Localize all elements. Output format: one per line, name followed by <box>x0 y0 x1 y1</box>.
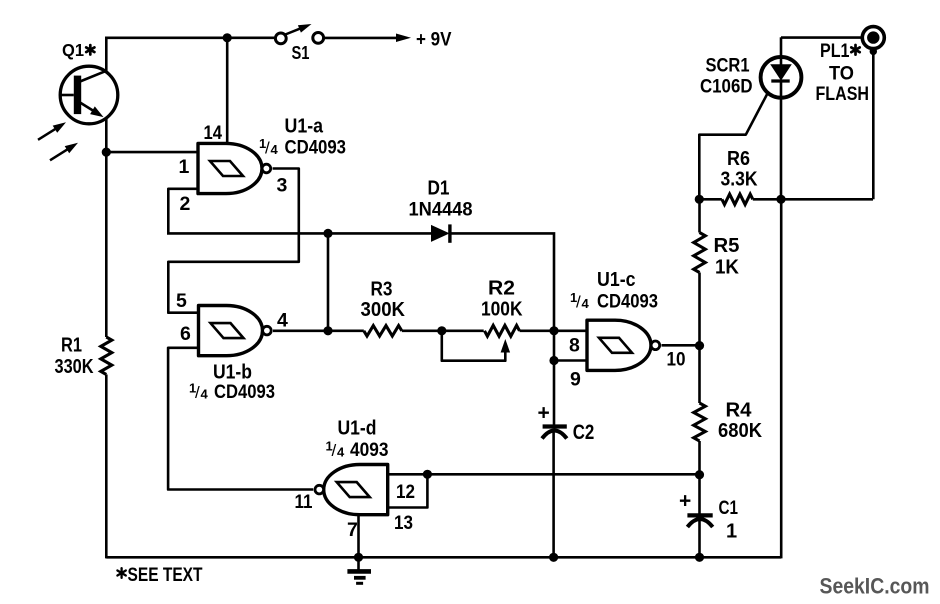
NAND gate U1-a <box>198 143 271 193</box>
svg-text:C1: C1 <box>719 497 739 519</box>
top supply rail wire <box>105 36 281 39</box>
wire pin 6 input from U1-d output <box>168 348 313 490</box>
svg-text:3: 3 <box>277 175 288 197</box>
resistor R3 <box>364 326 402 336</box>
junction pin10 / R5-R4 <box>695 341 704 350</box>
svg-text:/: / <box>576 293 581 312</box>
svg-text:+: + <box>679 490 691 513</box>
switch S1 <box>275 24 323 44</box>
svg-text:/: / <box>265 139 270 158</box>
wire Q1 collector to rail <box>105 38 108 73</box>
svg-text:U1-d: U1-d <box>338 418 377 440</box>
wire pin 10 output <box>662 344 700 347</box>
svg-text:U1-b: U1-b <box>213 362 252 384</box>
SCR1 <box>761 57 802 98</box>
NAND gate U1-d (mirrored) <box>315 465 388 515</box>
svg-text:CD4093: CD4093 <box>285 138 347 159</box>
svg-text:/: / <box>195 383 200 402</box>
svg-text:4: 4 <box>277 310 288 332</box>
junction C1 / bottom rail <box>695 553 704 562</box>
svg-text:FLASH: FLASH <box>816 83 870 105</box>
svg-text:C2: C2 <box>573 421 595 444</box>
svg-text:SCR1: SCR1 <box>706 55 750 77</box>
svg-text:13: 13 <box>394 512 413 534</box>
svg-text:1K: 1K <box>715 257 740 279</box>
note *SEE TEXT <box>120 568 122 578</box>
svg-text:4: 4 <box>271 142 279 157</box>
junction pin4 line / node A drop <box>323 326 332 335</box>
wire pin14 <box>226 38 229 144</box>
svg-text:9: 9 <box>570 369 581 391</box>
capacitor C2 <box>542 427 567 439</box>
ground <box>347 557 371 583</box>
svg-text:U1-a: U1-a <box>285 116 324 138</box>
junction pin 8 node <box>549 326 558 335</box>
svg-text:12: 12 <box>396 481 415 503</box>
wire SCR anode up / to PL1 <box>780 37 783 57</box>
svg-text:11: 11 <box>295 491 313 513</box>
wire pin 4 output to R3 <box>273 329 364 332</box>
capacitor C1 <box>687 515 712 527</box>
svg-text:7: 7 <box>347 519 358 541</box>
svg-text:+ 9V: + 9V <box>416 29 452 51</box>
svg-text:R2: R2 <box>488 278 515 300</box>
svg-text:3.3K: 3.3K <box>721 169 758 191</box>
svg-text:14: 14 <box>204 122 223 144</box>
resistor R5 <box>694 233 706 273</box>
svg-text:4093: 4093 <box>350 440 389 461</box>
wire pin 3 output <box>168 169 298 313</box>
resistor R6 <box>722 194 753 204</box>
R2 wiper arm <box>442 331 506 361</box>
wire pins 12-13 tie <box>388 474 428 507</box>
junction C2 / bottom rail <box>549 553 558 562</box>
junction R4 / C1 / pin12 line <box>695 470 704 479</box>
svg-text:100K: 100K <box>481 299 523 321</box>
wire node A vertical drop <box>327 233 330 330</box>
NAND gate U1-c <box>587 320 660 370</box>
junction R2 left / wiper <box>437 326 446 335</box>
svg-text:SEE TEXT: SEE TEXT <box>128 564 203 586</box>
svg-text:5: 5 <box>176 290 187 312</box>
wire pin9 node <box>554 359 587 362</box>
wire node A horizontal (pin2 / D1 anode line) <box>167 232 433 235</box>
bottom rail wire <box>106 556 781 559</box>
svg-text:Q1: Q1 <box>62 40 84 60</box>
svg-text:300K: 300K <box>361 299 406 321</box>
junction at pin14 branch <box>223 33 232 42</box>
svg-text:PL1: PL1 <box>820 40 850 62</box>
svg-text:D1: D1 <box>428 178 450 200</box>
svg-text:C106D: C106D <box>700 76 753 98</box>
wire RC node down to C2 <box>553 331 556 426</box>
junction R6 left <box>695 195 704 204</box>
wire pin12 line to R4/C1 node <box>427 473 699 476</box>
resistor R1 <box>101 337 112 375</box>
transistor Q1 (phototransistor) <box>60 66 118 124</box>
svg-text:R3: R3 <box>371 279 393 301</box>
wire left rail down to bottom <box>105 152 108 337</box>
svg-text:R5: R5 <box>714 235 740 257</box>
junction R6 right / cathode <box>776 195 785 204</box>
potentiometer R2 <box>485 325 520 336</box>
svg-text:R4: R4 <box>726 400 753 422</box>
svg-text:SeekIC.com: SeekIC.com <box>820 574 930 599</box>
svg-text:6: 6 <box>180 323 191 345</box>
svg-text:680K: 680K <box>718 420 763 442</box>
wire R3 to R2 <box>402 329 484 332</box>
svg-text:/: / <box>332 441 337 460</box>
wire SCR cathode down <box>780 97 783 199</box>
svg-text:1N4448: 1N4448 <box>409 200 473 221</box>
diode D1 <box>431 224 554 331</box>
wire C2 to bottom rail <box>552 433 555 559</box>
svg-text:4: 4 <box>582 296 590 311</box>
wire R2 to pin8 node <box>520 329 588 332</box>
junction pin12 <box>423 470 432 479</box>
svg-text:U1-c: U1-c <box>597 269 636 291</box>
svg-text:R1: R1 <box>61 335 82 357</box>
svg-text:2: 2 <box>180 193 191 215</box>
resistor R4 <box>694 403 706 441</box>
terminal PL1 <box>862 27 884 56</box>
svg-text:TO: TO <box>829 63 854 85</box>
junction Q1 emitter / pin1 <box>102 148 111 157</box>
svg-text:+: + <box>538 401 550 424</box>
svg-text:4: 4 <box>201 387 209 402</box>
junction node A <box>323 229 332 238</box>
wire pin 1 input <box>106 151 198 154</box>
svg-text:10: 10 <box>667 349 686 371</box>
wire pin 2 feedback <box>168 189 198 234</box>
svg-text:S1: S1 <box>292 43 310 63</box>
wire R5-R4 chain <box>698 199 701 232</box>
NAND gate U1-b <box>199 306 272 356</box>
junction pin7 / bottom rail <box>354 553 363 562</box>
svg-text:CD4093: CD4093 <box>214 382 275 403</box>
photo arrows into Q1 <box>38 122 78 160</box>
wire PL1 down <box>872 48 875 199</box>
svg-text:CD4093: CD4093 <box>597 292 658 313</box>
wire SCR gate <box>699 92 768 200</box>
svg-text:R6: R6 <box>727 148 750 170</box>
svg-text:1: 1 <box>726 521 737 543</box>
wire S1 to +9V <box>323 37 399 40</box>
junction pin 9 node <box>549 356 558 365</box>
wire pin 7 to ground rail <box>357 515 360 559</box>
wire right rail down <box>780 199 783 558</box>
wire R6 rail <box>699 198 722 201</box>
wire Q1 emitter down <box>105 119 108 154</box>
svg-text:1: 1 <box>179 156 190 178</box>
svg-text:8: 8 <box>569 335 580 357</box>
svg-text:330K: 330K <box>55 356 94 378</box>
svg-text:4: 4 <box>337 445 345 460</box>
